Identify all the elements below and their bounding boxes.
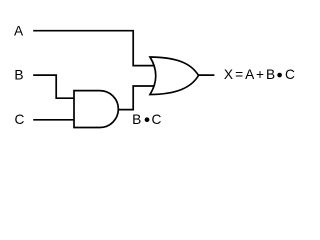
svg-text:A: A [245, 67, 255, 82]
OR gate U2 [150, 57, 199, 95]
wire A: input A to OR gate top input [33, 31, 154, 66]
wire C: input C to AND gate bottom input [33, 119, 74, 121]
wire OR output [198, 74, 214, 76]
svg-text:+: + [256, 67, 264, 82]
node label B•C at AND output [132, 112, 161, 127]
AND gate U1 [74, 91, 118, 128]
output label X = A + B•C [224, 67, 295, 82]
svg-text:C: C [152, 112, 162, 127]
svg-text:A: A [14, 24, 24, 39]
svg-text:C: C [285, 67, 295, 82]
svg-text:C: C [15, 112, 25, 127]
svg-text:X: X [224, 67, 233, 82]
svg-text:B: B [14, 68, 23, 83]
wire AND output up to OR gate bottom input [118, 86, 154, 110]
svg-text:B: B [132, 112, 141, 127]
wire B: input B jog down to AND gate top input [33, 75, 74, 98]
svg-text:=: = [235, 67, 243, 82]
svg-text:B: B [266, 67, 275, 82]
